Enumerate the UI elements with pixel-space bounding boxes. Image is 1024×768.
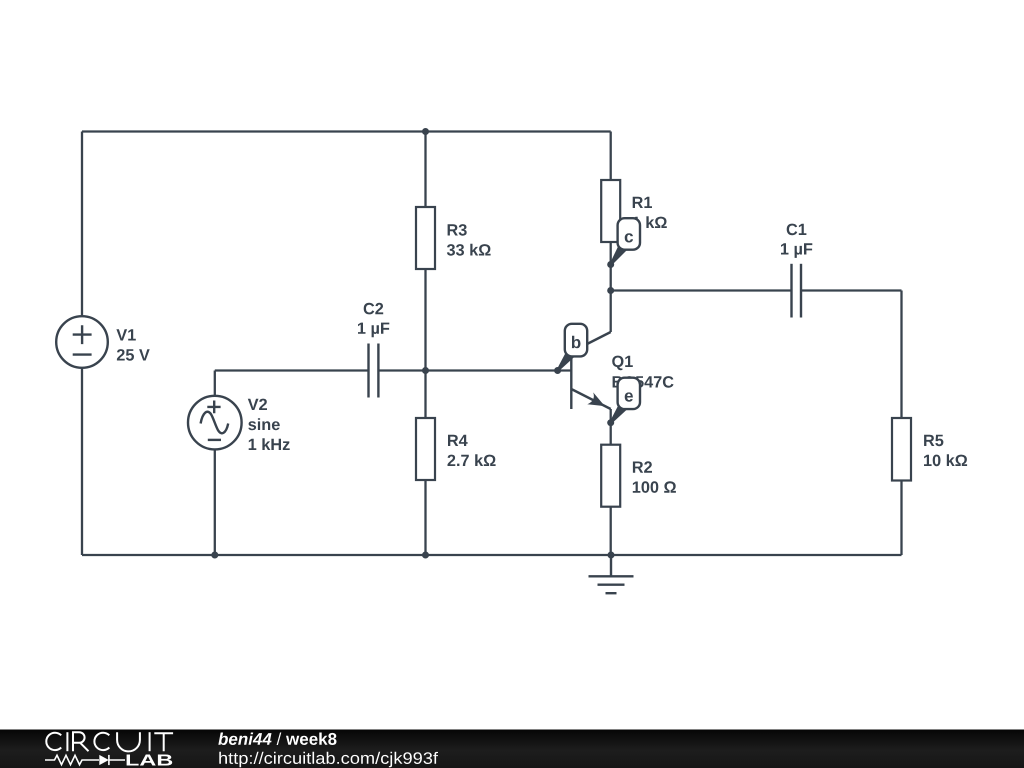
transistor Q1 [571, 332, 610, 409]
wire V2 bottom stem [214, 449, 216, 555]
wire R4 bottom lead [424, 480, 426, 555]
capacitor C1 [792, 264, 802, 318]
pin label leader c [610, 244, 628, 266]
ground [589, 555, 634, 593]
label V2 [248, 399, 267, 410]
CircuitLab logo resistor-diode glyph [45, 755, 125, 765]
node dot emitter pin [607, 419, 614, 426]
value 100 Ohm [633, 481, 676, 493]
label V1 [116, 329, 135, 340]
pin label leader e [610, 403, 628, 424]
node dot base pin [554, 367, 561, 374]
footer user / project [218, 733, 271, 746]
wire V2 top stem [214, 371, 216, 396]
voltage source V2 (sine) [188, 396, 242, 450]
node dot top R3 branch [422, 128, 429, 135]
CircuitLab logo CIRCUIT [46, 732, 173, 751]
emitter arrowhead [587, 392, 605, 406]
wire top rail [82, 130, 611, 132]
label R4 [448, 435, 468, 446]
footer bar [0, 730, 1024, 768]
node dot output junction [607, 287, 614, 294]
wire R5 bottom lead [900, 481, 902, 556]
pin label c [618, 218, 640, 250]
wire output horizontal right of C1 [801, 289, 902, 291]
wire base left segment [215, 369, 369, 371]
resistor R3 [416, 207, 435, 269]
label R1 [633, 197, 652, 208]
value BC547C (partly hidden by pin label e) [613, 376, 674, 388]
wire emitter vertical [610, 409, 612, 445]
wire left rail lower [81, 368, 83, 555]
wire R3 top lead [424, 132, 426, 208]
capacitor C2 [369, 344, 379, 398]
value 1 uF [781, 243, 812, 258]
node dot collector pin [607, 261, 614, 268]
footer url [219, 752, 438, 767]
node dot C2/R3/R4 junction [422, 367, 429, 374]
value sine [248, 418, 279, 430]
wire output horizontal left of C1 [611, 289, 792, 291]
label Q1 [612, 356, 633, 371]
resistor R1 [601, 180, 620, 242]
pin label leader b [557, 351, 575, 372]
CircuitLab logo LAB [127, 755, 173, 766]
pin label b [565, 324, 587, 357]
pin label e [618, 378, 640, 409]
wire bottom rail [82, 554, 902, 556]
wire collector vertical [610, 242, 612, 332]
value 1 uF [358, 323, 389, 338]
value 1 kOhm (partly hidden by pin label c) [633, 216, 667, 228]
node dot V2 bottom [211, 552, 218, 559]
label R5 [924, 435, 943, 446]
label C2 [364, 303, 384, 315]
value 33 kOhm [447, 244, 491, 256]
wire R2 bottom lead [610, 507, 612, 555]
node dot ground junction [608, 552, 615, 559]
value 2.7 kOhm [448, 454, 496, 466]
label C1 [787, 224, 807, 236]
wire base right segment [378, 369, 571, 371]
label R2 [633, 461, 652, 472]
wire R3-R4 middle [424, 269, 426, 418]
wire left rail upper [81, 132, 83, 317]
node dot R4 bottom [422, 552, 429, 559]
value 25 V [117, 349, 150, 361]
value 1 kHz [249, 438, 290, 450]
label R3 [448, 224, 467, 236]
resistor R5 [892, 418, 911, 481]
resistor R2 [601, 445, 620, 507]
wire R5 top lead [900, 291, 902, 419]
resistor R4 [416, 418, 435, 480]
wire R1 top lead [610, 132, 612, 181]
voltage source V1 [56, 316, 108, 368]
value 10 kOhm [924, 454, 967, 466]
